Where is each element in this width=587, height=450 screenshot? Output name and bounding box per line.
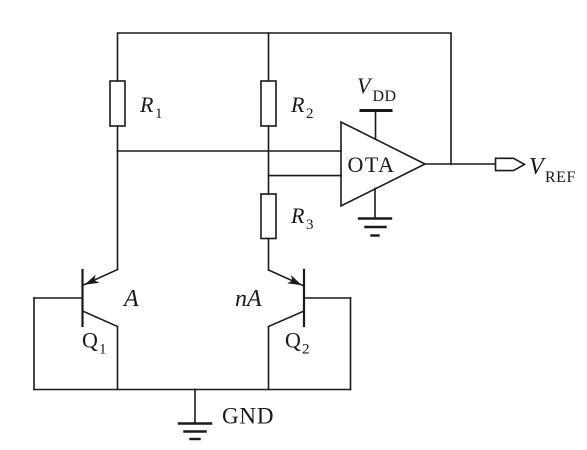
ground GND [179,390,274,440]
wire R2 bottom through node to R3 top [268,126,270,194]
wire R3 bottom down to Q2 emitter [268,239,270,271]
transistor Q2 [269,270,351,390]
wire OTA output to terminal [425,163,496,165]
svg-text:2: 2 [302,342,310,358]
wire R1 bottom to node row [117,126,119,151]
wire Q2 base to ground rail [350,298,352,390]
svg-text:nA: nA [235,286,262,312]
svg-text:A: A [122,286,139,312]
svg-text:2: 2 [306,106,314,122]
op-amp U1 OTA [341,122,425,206]
wire Q1 base to ground rail [33,298,35,390]
svg-text:3: 3 [306,217,314,233]
svg-text:Q: Q [82,328,98,353]
wire node A row to OTA non-inverting input [118,150,342,152]
wire top rail from R1 top to output node [118,33,452,164]
svg-text:REF: REF [545,169,576,186]
svg-text:R: R [290,203,305,228]
svg-text:GND: GND [222,404,274,429]
ground under OTA [359,189,391,236]
transistor Q1 [34,270,118,390]
svg-text:Q: Q [285,328,301,353]
svg-text:1: 1 [99,342,107,358]
svg-text:DD: DD [373,88,397,105]
resistor R1 [110,81,163,126]
svg-text:OTA: OTA [348,152,396,177]
resistor R3 [261,194,314,239]
svg-text:R: R [290,92,305,117]
wire R2/R3 node to OTA inverting input [269,175,342,177]
wire R2 top drop from rail [268,33,270,81]
wire ground rail [34,389,351,391]
power VDD supply bar [357,73,397,139]
wire node A row down to Q1 emitter [117,151,119,270]
resistor R2 [261,81,314,126]
svg-text:1: 1 [155,106,163,122]
terminal VREF [496,154,576,186]
svg-text:V: V [529,154,546,180]
svg-text:R: R [139,92,154,117]
